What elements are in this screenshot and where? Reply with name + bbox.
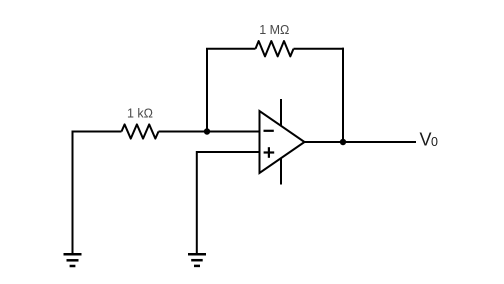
wire: from R_in to op-amp inverting input	[159, 131, 260, 133]
wire: feedback top horizontal left of Rf	[206, 48, 256, 50]
svg-text:1 kΩ: 1 kΩ	[127, 107, 153, 121]
wire: op-amp output to terminal	[305, 141, 417, 143]
resistor R_f 1 MOhm	[256, 41, 294, 56]
svg-text:0: 0	[431, 135, 438, 149]
resistor R_in 1 kOhm	[122, 124, 159, 138]
wire: input horizontal to R1	[72, 131, 122, 133]
wire: feedback left vertical	[206, 49, 208, 132]
op-amp non-inverting input marker (plus)	[264, 147, 275, 158]
svg-text:1 MΩ: 1 MΩ	[259, 23, 289, 37]
pin: negative supply (bottom)	[280, 158, 282, 185]
svg-text:V: V	[420, 129, 432, 149]
wire: feedback top horizontal right of Rf	[294, 48, 345, 50]
wire: non-inverting input horizontal	[197, 151, 260, 153]
wire: non-inverting input vertical down to ground	[196, 151, 198, 254]
wire: feedback right vertical down to output node	[342, 48, 344, 142]
net label V0 (output)	[420, 129, 439, 149]
ground (middle, at non-inverting input)	[188, 254, 206, 266]
op-amp U1 triangle	[260, 111, 305, 173]
node: output junction	[340, 139, 346, 145]
node: inverting input junction	[204, 128, 210, 134]
pin: positive supply (top)	[280, 99, 282, 126]
op-amp inverting input marker (minus)	[264, 130, 274, 132]
wire: input left vertical from ground up to input node	[72, 132, 74, 254]
ground (left, below input wire)	[64, 254, 82, 266]
